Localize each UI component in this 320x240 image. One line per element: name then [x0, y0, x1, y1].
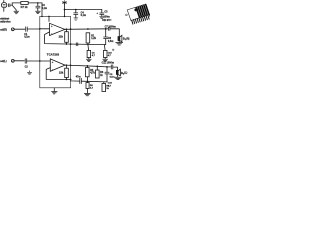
- svg-text:4,7: 4,7: [90, 86, 94, 89]
- svg-text:mikrofon: mikrofon: [0, 20, 11, 23]
- svg-text:C10: C10: [108, 52, 113, 54]
- svg-text:22k: 22k: [59, 71, 64, 75]
- svg-text:47m: 47m: [76, 76, 81, 79]
- svg-text:C6: C6: [92, 52, 96, 54]
- svg-text:1,2k: 1,2k: [91, 37, 96, 40]
- svg-text:4,7: 4,7: [108, 54, 112, 57]
- svg-text:(L): (L): [124, 73, 127, 75]
- svg-text:C7 1000m: C7 1000m: [105, 25, 116, 28]
- svg-text:C11 1000m: C11 1000m: [102, 62, 114, 65]
- svg-text:UB 9V=: UB 9V=: [102, 18, 112, 22]
- svg-text:1k: 1k: [106, 88, 109, 90]
- svg-text:+: +: [96, 11, 98, 15]
- svg-text:ad(L): ad(L): [0, 59, 6, 63]
- svg-text:4,7k: 4,7k: [90, 72, 95, 75]
- svg-text:C10: C10: [108, 83, 113, 85]
- svg-text:R7 1k: R7 1k: [21, 5, 28, 9]
- svg-text:1k: 1k: [100, 74, 103, 77]
- svg-text:ad(R): ad(R): [0, 27, 7, 31]
- svg-text:(R): (R): [126, 39, 129, 41]
- svg-text:4,7: 4,7: [108, 84, 112, 87]
- svg-text:0,1m: 0,1m: [24, 36, 29, 39]
- svg-text:0,1m: 0,1m: [42, 7, 47, 10]
- svg-text:C2: C2: [25, 66, 29, 69]
- svg-text:TCA7263: TCA7263: [47, 53, 60, 57]
- svg-text:-: -: [52, 67, 53, 71]
- svg-text:-: -: [51, 32, 52, 36]
- svg-text:22k: 22k: [59, 35, 64, 39]
- svg-text:0,5m: 0,5m: [110, 76, 115, 78]
- svg-text:0,1m: 0,1m: [81, 14, 86, 17]
- svg-text:4,7: 4,7: [92, 54, 96, 57]
- svg-text:0,5m: 0,5m: [108, 40, 113, 43]
- svg-text:C5: C5: [104, 10, 108, 13]
